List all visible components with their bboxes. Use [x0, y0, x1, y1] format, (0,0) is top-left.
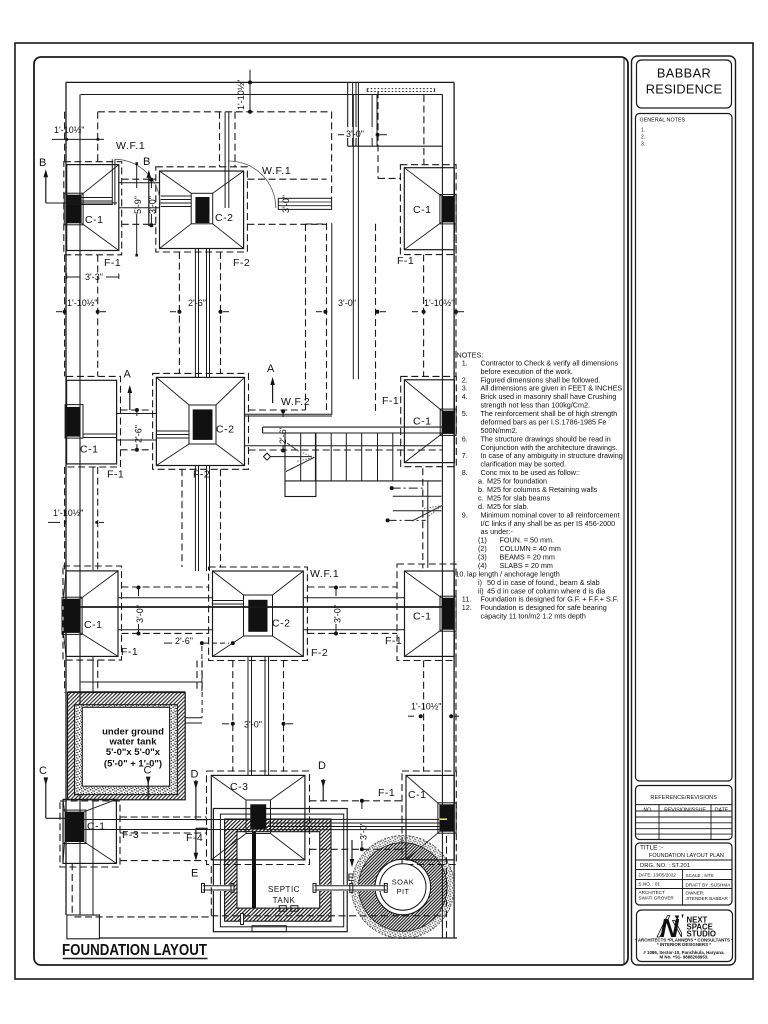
right trench dashed rows3-4	[423, 661, 425, 772]
svg-text:OWNER:: OWNER:	[686, 891, 705, 896]
svg-text:7.: 7.	[462, 451, 468, 460]
svg-text:3'-0": 3'-0"	[281, 195, 291, 213]
footing F-1 row2-right C-1	[404, 380, 454, 463]
footing F-2 row3 dashed box	[209, 567, 308, 661]
svg-text:3'-0": 3'-0"	[333, 605, 343, 623]
svg-text:S.NO. : 01: S.NO. : 01	[639, 882, 661, 887]
svg-text:W.F.1: W.F.1	[310, 568, 339, 580]
footing F-1 row2-left C-1	[67, 380, 117, 464]
top-right porch verticals	[371, 95, 373, 147]
svg-text:E: E	[191, 868, 198, 880]
footing F-1 row3-left C-1	[66, 571, 118, 657]
svg-text:F-1: F-1	[397, 255, 414, 267]
svg-text:SEPTIC: SEPTIC	[268, 885, 300, 894]
svg-text:DATE: DATE	[715, 808, 729, 814]
svg-text:F-1: F-1	[378, 787, 395, 799]
door threshold sill top	[278, 198, 331, 209]
svg-text:C-1: C-1	[408, 789, 426, 801]
svg-text:F-1: F-1	[385, 635, 402, 647]
svg-text:F-1: F-1	[107, 469, 124, 481]
dim 2-6 rotated right of row2 C-2	[282, 411, 284, 417]
title block column border	[632, 56, 736, 965]
wall above C-2 to trench	[219, 112, 221, 167]
svg-text:5'-9": 5'-9"	[133, 196, 143, 214]
dim 3-0 top-right	[344, 127, 375, 138]
row4 wall beam lines left	[84, 819, 250, 821]
stair-left trench dashed	[326, 223, 328, 410]
svg-text:1.: 1.	[462, 358, 468, 367]
svg-text:TANK: TANK	[273, 896, 296, 905]
svg-text:4.: 4.	[462, 392, 468, 401]
svg-text:D: D	[318, 760, 326, 772]
stair-left wall long line pair	[352, 95, 354, 380]
svg-text:SCALE : NTS: SCALE : NTS	[686, 873, 714, 878]
dim 3-0 rotated row1	[150, 180, 152, 188]
dim 3-0 C-3 strip	[222, 723, 229, 725]
door leaf right of C-2 top	[224, 161, 226, 208]
row4 trench dashed below left	[120, 860, 207, 862]
row2 lower wall line full	[245, 445, 443, 447]
svg-text:FOUNDATION LAYOUT PLAN: FOUNDATION LAYOUT PLAN	[649, 853, 724, 859]
septic tank bottom tab	[252, 926, 286, 932]
beam stub in row2-left C-1	[83, 433, 117, 435]
svg-text:C-2: C-2	[272, 618, 290, 630]
svg-text:M No. +91- 9888208953.: M No. +91- 9888208953.	[660, 954, 709, 959]
svg-text:B: B	[39, 157, 46, 169]
svg-text:JITENDER BABBAR: JITENDER BABBAR	[686, 896, 729, 901]
dim row y311 2-6	[170, 311, 176, 313]
footing F-1 row2-left dashed box	[66, 376, 120, 467]
footing F-2 row3 C-2	[213, 571, 304, 656]
footing F-2 row2 C-2	[156, 377, 244, 465]
beam lines left of row2 C-2	[156, 430, 189, 432]
top-right trench dashed vertical	[377, 92, 379, 179]
highlight mark on beam	[439, 818, 447, 820]
svg-text:DATE: 13/05/2022: DATE: 13/05/2022	[639, 873, 677, 878]
footing F-1 top-right C-1	[404, 168, 454, 250]
svg-text:GENERAL NOTES: GENERAL NOTES	[640, 118, 686, 124]
row3 trench dashed lines	[122, 586, 209, 588]
footing F-3 row4-left C-1	[63, 799, 116, 863]
svg-text:capacity 11 ton/m2 1.2 mts dep: capacity 11 ton/m2 1.2 mts depth	[481, 612, 586, 621]
svg-text:2'-6": 2'-6"	[175, 636, 193, 646]
dim 1-10.5 left row1	[52, 138, 104, 140]
title box	[636, 843, 733, 905]
row2 wall line right of C-2	[245, 413, 333, 415]
dim 1-10.5 top rotated	[249, 70, 251, 112]
svg-text:2'-6": 2'-6"	[188, 298, 206, 308]
svg-text:SWATI GROVER: SWATI GROVER	[639, 896, 675, 901]
dashed leader down from 2-6	[201, 646, 203, 692]
row1 wall lines between C-1 and C-2	[119, 182, 160, 184]
stair lower dash-dot lines	[392, 487, 426, 489]
step lines right of tank	[185, 717, 202, 719]
trench dashed below row2 C-2	[181, 469, 183, 567]
wall below row3 C-2	[247, 656, 249, 775]
svg-text:C-3: C-3	[230, 781, 248, 793]
foundation trench dashed top	[98, 111, 332, 113]
dim row y311 3-0	[316, 311, 322, 313]
stair lower break arrow	[412, 506, 442, 522]
row3 wall solid lines	[118, 597, 213, 599]
row1 trench dashed lines	[122, 178, 156, 180]
svg-text:REFERENCE/REVISIONS: REFERENCE/REVISIONS	[650, 795, 717, 801]
beam stub lines in C-1 top-left	[66, 197, 112, 199]
svg-text:3'-0": 3'-0"	[135, 605, 145, 623]
below stairs verticals	[422, 468, 424, 568]
svg-text:F-3: F-3	[122, 829, 139, 841]
stair direction diamond	[264, 453, 271, 460]
pipe septic to soak pit	[314, 885, 386, 891]
footing F-2 top C-2	[160, 171, 244, 249]
svg-text:2.: 2.	[641, 135, 645, 141]
row4 beam lines right	[266, 818, 439, 820]
footing F-1 top-left C-1	[67, 165, 119, 251]
footing F-1 top-left dashed box	[64, 162, 122, 255]
septic tank inner wall	[237, 832, 320, 908]
left wall trench dashed outer	[64, 112, 66, 162]
door leaf at C-1 top-left	[111, 159, 113, 205]
trench dashed C-3 strip	[232, 661, 234, 772]
svg-text:1'-10½": 1'-10½"	[54, 125, 84, 135]
svg-text:C-1: C-1	[85, 214, 103, 226]
stair break arrow upper	[287, 443, 298, 451]
beam lines left of C-2 top	[161, 195, 192, 197]
row3 beam thick line	[81, 606, 443, 608]
row2 wall solid lines left gap	[117, 413, 157, 415]
footing F-1 row3-right C-1	[405, 571, 455, 656]
svg-text:10.: 10.	[455, 569, 465, 578]
left wall outer line	[65, 82, 67, 915]
svg-text:SOAK: SOAK	[392, 878, 414, 887]
svg-text:1'-10½": 1'-10½"	[236, 80, 246, 110]
drawing area inner right line	[623, 57, 625, 965]
lines above water tank	[81, 681, 202, 683]
water tank stipple band	[75, 705, 178, 795]
wall below C-2 top going down	[194, 249, 196, 378]
dim 5-9 rotated row1	[136, 164, 138, 188]
septic tank baffle	[252, 832, 256, 908]
dim 1-10.5 left rows2-3	[48, 521, 60, 523]
next space studio logo mark	[657, 916, 670, 938]
septic tank hatched wall	[225, 819, 331, 921]
door swing arc W.F.1 left	[115, 159, 160, 205]
drawing area border	[34, 57, 628, 965]
left wall trench dashed inner	[97, 112, 99, 162]
svg-text:1'-10½": 1'-10½"	[424, 298, 454, 308]
building outer wall top	[66, 81, 454, 83]
dim row y311 left 1-10.5	[56, 311, 62, 313]
water tank inner wall	[82, 707, 169, 786]
footing F-1 row3-left dashed box	[63, 566, 122, 660]
logo box	[637, 910, 733, 962]
svg-text:ARCHITECT: ARCHITECT	[639, 890, 665, 895]
svg-text:PIT: PIT	[397, 887, 410, 896]
svg-text:C-2: C-2	[216, 424, 234, 436]
stair treads	[300, 433, 302, 481]
general notes box	[636, 114, 733, 782]
stair bottom rail	[285, 480, 442, 482]
footing F-2 row2 dashed box	[153, 373, 249, 469]
svg-text:1'-10½": 1'-10½"	[53, 508, 83, 518]
revision table rows	[636, 810, 733, 812]
svg-text:C-1: C-1	[84, 619, 102, 631]
dim 3-0 rotated row4	[361, 801, 363, 809]
svg-text:F-4: F-4	[186, 832, 203, 844]
left wall inner line	[79, 95, 81, 916]
pipe from septic left	[203, 885, 234, 891]
soak pit stippled outer ring	[355, 839, 451, 935]
svg-text:3'-0": 3'-0"	[244, 720, 262, 730]
septic tank vent squares	[279, 906, 286, 912]
septic tank outer box	[213, 809, 347, 932]
trench dashed through septic bottom	[211, 915, 446, 917]
section marker E left	[196, 827, 208, 829]
svg-text:C-2: C-2	[215, 212, 233, 224]
svg-text:DRAFT BY :SUSHMA: DRAFT BY :SUSHMA	[686, 882, 732, 887]
svg-text:REVISION/ISSUE: REVISION/ISSUE	[664, 808, 706, 814]
svg-text:3.: 3.	[641, 142, 645, 148]
svg-text:3'-0": 3'-0"	[148, 196, 158, 214]
svg-text:W.F.1: W.F.1	[262, 165, 291, 177]
svg-text:1'-10½": 1'-10½"	[67, 298, 97, 308]
svg-text:* INTERIOR DESIGNERS *: * INTERIOR DESIGNERS *	[657, 942, 711, 947]
svg-text:5.: 5.	[462, 409, 468, 418]
svg-text:F-1: F-1	[121, 646, 138, 658]
section marker E right	[351, 840, 353, 862]
top-right wall lines vertical	[347, 82, 349, 146]
trench dashed drop at stair strip top	[331, 112, 333, 199]
svg-text:FOUNDATION LAYOUT: FOUNDATION LAYOUT	[62, 942, 207, 959]
stair lower treads	[393, 495, 442, 497]
soak pit inner circle	[380, 864, 426, 910]
svg-text:A: A	[267, 363, 275, 375]
svg-text:C-1: C-1	[413, 611, 431, 623]
svg-text:F-1: F-1	[382, 395, 399, 407]
top-right dotted wall strip	[367, 88, 434, 90]
soak pit right dashed	[446, 836, 448, 938]
right wall outer line	[453, 82, 455, 938]
dim 3-0 rotated row3-right	[335, 588, 337, 597]
svg-text:TITLE :-: TITLE :-	[640, 845, 663, 852]
revision table columns	[658, 805, 660, 840]
svg-text:NO.: NO.	[643, 808, 652, 814]
title grid	[682, 870, 684, 906]
top-right porch floor line	[348, 145, 443, 147]
svg-text:5'-0"x 5'-0"x: 5'-0"x 5'-0"x	[106, 747, 161, 758]
footing F-3 row4-left dashed box	[60, 801, 120, 867]
footing F-4 C-3	[211, 775, 305, 860]
left wall third line	[92, 467, 94, 570]
svg-text:C-1: C-1	[413, 204, 431, 216]
svg-text:F-2: F-2	[311, 647, 328, 659]
door swing arc W.F.1 right of C-2	[229, 161, 276, 208]
building bottom wall	[99, 937, 457, 939]
trench dashed C-2 strip rows1-2	[178, 252, 180, 373]
svg-text:BABBAR: BABBAR	[657, 66, 711, 81]
reference revisions box	[636, 786, 733, 840]
svg-text:C-1: C-1	[80, 444, 98, 456]
svg-text:C-1: C-1	[87, 821, 105, 833]
svg-text:3'-3": 3'-3"	[85, 272, 103, 282]
svg-text:NOTES:: NOTES:	[457, 351, 484, 360]
bottom-left trench dashed	[71, 863, 73, 915]
svg-text:2'-6": 2'-6"	[278, 426, 288, 444]
svg-text:6.: 6.	[462, 434, 468, 443]
footing F-1 top-right dashed box	[400, 165, 456, 255]
svg-text:12.: 12.	[462, 603, 472, 612]
footing F-1 row3-right dashed box	[397, 564, 456, 661]
water tank outer hatched wall	[68, 693, 186, 800]
bottom-left wall step box	[67, 915, 100, 939]
svg-text:8.: 8.	[462, 468, 468, 477]
svg-text:water tank: water tank	[109, 737, 158, 748]
soak pit hatched ring	[367, 851, 439, 923]
septic tank second box	[220, 814, 343, 927]
svg-text:1'-10½": 1'-10½"	[411, 702, 441, 712]
svg-text:3'-0": 3'-0"	[346, 129, 364, 139]
svg-text:1.: 1.	[641, 128, 645, 134]
right wall trench dashed rows1-2	[375, 224, 377, 415]
svg-text:W.F.2: W.F.2	[281, 396, 310, 408]
svg-text:(5'-0" + 1'-0"): (5'-0" + 1'-0")	[104, 759, 162, 770]
svg-text:RESIDENCE: RESIDENCE	[646, 82, 722, 97]
svg-text:A: A	[124, 369, 132, 381]
right wall inner line	[441, 95, 443, 939]
dim 2-6 rotated row2-left	[136, 410, 138, 416]
row4 trench dashed lines	[120, 816, 207, 818]
svg-text:C: C	[39, 765, 47, 777]
beam lines left of row3 C-2	[213, 600, 244, 602]
dim 3-0 rotated row3-left	[138, 588, 140, 597]
footing F-1 row4-right dashed box	[402, 771, 456, 865]
septic inlet pipe stub	[241, 914, 244, 925]
dim 2-6 small	[164, 642, 172, 644]
row2 trench dashed lines	[121, 409, 153, 411]
footing F-2 top C-2 dashed box	[156, 167, 248, 252]
wall below row2 C-2	[194, 466, 196, 572]
svg-text:9.: 9.	[462, 510, 468, 519]
svg-text:F-2: F-2	[233, 257, 250, 269]
dim row y311 right 1-10.5	[412, 311, 418, 313]
svg-text:DRG. NO. : ST.201: DRG. NO. : ST.201	[640, 863, 690, 869]
dim 1-10.5 right rows3-4	[408, 715, 414, 717]
stair top rails	[263, 426, 443, 428]
svg-text:W.F.1: W.F.1	[116, 140, 145, 152]
svg-text:F-1: F-1	[104, 257, 121, 269]
svg-text:C-1: C-1	[413, 416, 431, 428]
revision table header line	[636, 804, 733, 806]
building inner wall top	[81, 94, 443, 96]
svg-text:B: B	[143, 156, 150, 168]
dim 3-3 below F-1	[66, 274, 68, 280]
footing F-1 row2-right dashed box	[401, 376, 457, 466]
stair-left wall solid line	[331, 223, 333, 415]
footing F-1 row4-right C-1	[406, 775, 454, 860]
svg-text:D: D	[191, 769, 199, 781]
svg-text:3'-0": 3'-0"	[359, 822, 369, 840]
svg-text:C: C	[144, 765, 152, 777]
stair landing box	[285, 433, 316, 497]
project name box	[637, 60, 732, 108]
footing F-4 C-3 dashed box	[207, 771, 310, 865]
